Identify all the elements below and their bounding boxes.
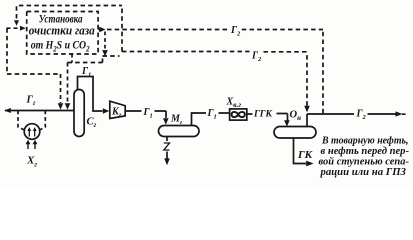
compressor Kg (trapezoid) <box>110 101 125 118</box>
wire: dashed vertical x=307 with arrow to output junction <box>306 52 308 106</box>
wire: cooler bypass left dashed <box>18 111 25 131</box>
svg-text:очистки газа: очистки газа <box>29 24 95 38</box>
cooler Xg (circle) <box>24 124 40 140</box>
wire: On outlet riser and output G2 <box>307 114 406 127</box>
wire: dashed vertical x=323 down to output <box>322 30 324 114</box>
arrows into cooler from below <box>28 143 35 149</box>
svg-text:ГК: ГК <box>297 149 313 161</box>
svg-text:Сг: Сг <box>87 117 97 130</box>
wire: dashed G2 line (lower) <box>103 52 308 57</box>
wire: box-bottom stub <box>71 54 73 63</box>
svg-text:Г2: Г2 <box>356 109 367 122</box>
wire: dashed horizontal y=74 <box>7 73 61 75</box>
separator column Cg <box>74 90 84 137</box>
node arrow into feed line (down) <box>14 20 19 26</box>
drum Mg <box>159 126 200 137</box>
svg-text:Г2: Г2 <box>230 25 241 38</box>
wire: cooler bypass right dashed <box>40 111 46 131</box>
wire: On drain GK <box>294 138 307 164</box>
svg-text:в нефть перед пер-: в нефть перед пер- <box>321 146 410 157</box>
wire: dashed drop to main line with arrow <box>60 74 62 103</box>
wire: top dashed return line y=5.5 <box>17 6 123 19</box>
svg-text:Гг: Гг <box>26 95 36 108</box>
svg-text:рации или на ГПЗ: рации или на ГПЗ <box>319 167 406 178</box>
cooler internal arrows <box>29 130 34 137</box>
wire: Mg outlet <box>192 113 230 126</box>
wire: compressor outlet <box>125 111 166 118</box>
wire: jog riser <box>102 56 104 63</box>
svg-text:Г2: Г2 <box>251 51 262 64</box>
air cooler Xvg (box with bowtie) <box>230 109 247 120</box>
wire: second dashed drop with arrow <box>67 63 69 104</box>
wire: dashed G2 line (upper) <box>107 29 323 31</box>
wire: main gas line Gg <box>5 110 74 112</box>
dashed box: gas purification unit <box>27 12 98 55</box>
svg-text:ГГК: ГГК <box>253 110 272 120</box>
Mg drain with z-mark and arrow <box>166 137 168 142</box>
svg-text:В товарную нефть,: В товарную нефть, <box>321 135 408 146</box>
wire: dashed drop from upper line to lower line, arrow <box>104 32 106 51</box>
wire: GGK line to On drum <box>247 114 288 121</box>
svg-text:вой ступенью сепа-: вой ступенью сепа- <box>319 156 410 167</box>
wire: far-left vertical dashed <box>6 28 8 74</box>
wire: dashed feed into box left side <box>7 27 19 29</box>
drum On <box>274 127 316 139</box>
svg-text:Хв.г: Хв.г <box>226 97 242 110</box>
svg-text:от H2S и СО2: от H2S и СО2 <box>31 39 90 53</box>
svg-text:Г1: Г1 <box>207 108 217 121</box>
wire: dashed vertical x=122 <box>121 6 123 52</box>
svg-text:Г1: Г1 <box>81 66 91 79</box>
wire: column top riser to compressor <box>78 77 103 112</box>
svg-text:Мг: Мг <box>170 114 183 127</box>
svg-text:Он: Он <box>290 110 302 123</box>
svg-text:Г1: Г1 <box>143 107 153 120</box>
svg-text:Хг: Хг <box>26 155 37 169</box>
wire: box outlet arrow on upper G2 line <box>98 29 99 31</box>
wire: dashed horizontal y=62.5 over column <box>68 62 103 64</box>
